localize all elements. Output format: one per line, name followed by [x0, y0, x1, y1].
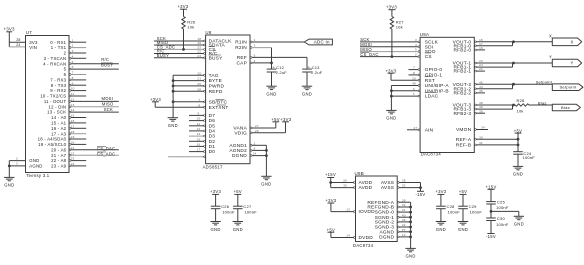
svg-text:Y: Y — [570, 61, 573, 66]
ground (C26) — [210, 222, 220, 232]
svg-text:GND: GND — [514, 222, 524, 227]
capacitor C30 100nF — [486, 211, 509, 233]
svg-text:+5V: +5V — [327, 227, 335, 232]
U9A pin RST (10) — [391, 76, 435, 84]
ground (U9B) — [405, 248, 415, 258]
svg-text:D7: D7 — [209, 113, 216, 119]
svg-text:MOSI: MOSI — [102, 96, 114, 101]
svg-text:10k: 10k — [187, 24, 194, 29]
svg-text:C26: C26 — [221, 204, 230, 209]
svg-text:AVSS: AVSS — [381, 185, 394, 191]
U9A pin RFB2-2 (45) — [453, 89, 485, 97]
U8 unnamed pin stub row — [168, 156, 205, 158]
svg-text:AVSS: AVSS — [381, 180, 394, 186]
svg-text:Teensy 3.1: Teensy 3.1 — [26, 173, 50, 178]
power +3V3 (VDIG) — [280, 117, 291, 122]
U9A pin REF-A (30) — [456, 135, 520, 143]
capacitor C26 100nF — [211, 204, 235, 222]
wire RFB1-0 to VOUT-0 — [512, 40, 515, 45]
connector tag Y — [552, 59, 581, 67]
svg-text:MISO: MISO — [102, 101, 114, 106]
svg-text:RFB2-2: RFB2-2 — [453, 91, 471, 97]
wire REF down to C13 — [306, 57, 308, 69]
IC U8 ADS8517 body — [203, 30, 250, 170]
U7 pin 23 - A9 — [51, 162, 86, 169]
U9B pin DGND (12) — [379, 233, 412, 241]
svg-text:20: 20 — [71, 141, 75, 145]
svg-text:BYTE: BYTE — [209, 78, 222, 84]
svg-text:18: 18 — [71, 130, 75, 134]
svg-text:100nF: 100nF — [448, 209, 461, 214]
svg-text:7 - RX3: 7 - RX3 — [50, 78, 66, 83]
svg-text:18 - A4/SDA0: 18 - A4/SDA0 — [38, 137, 67, 142]
wire RFB1-2 to VOUT-2 — [512, 83, 515, 89]
U8 pin BYTE (21) — [172, 77, 222, 85]
svg-text:2.2uF: 2.2uF — [276, 70, 288, 75]
ground (C13) — [302, 86, 312, 96]
U8 pin AGND2 (6) — [229, 147, 267, 155]
svg-text:13: 13 — [346, 208, 350, 212]
wire RFB1-1 to VOUT-1 — [512, 62, 515, 68]
net label Bias — [538, 100, 547, 105]
svg-text:GPIO-0: GPIO-0 — [425, 67, 443, 73]
svg-text:U9A: U9A — [420, 32, 429, 37]
net label BUSY (U8) — [157, 53, 169, 58]
U9A pin VOUT-2 (46) — [453, 80, 553, 88]
svg-text:VMON: VMON — [456, 127, 472, 133]
svg-text:CS_DAC: CS_DAC — [360, 52, 378, 57]
svg-text:VIN: VIN — [29, 45, 37, 50]
U9A RST and LDAC overbars — [425, 77, 436, 93]
net label SCK (U7) — [104, 107, 113, 112]
svg-text:TAG: TAG — [209, 73, 219, 79]
U7 pin 3V3 — [29, 40, 38, 45]
power +5V (C27) — [234, 189, 242, 206]
svg-text:14 - A0: 14 - A0 — [51, 115, 67, 120]
net label MOSI (U7) — [102, 96, 114, 101]
svg-text:100nF: 100nF — [222, 209, 235, 214]
svg-text:11: 11 — [71, 92, 75, 96]
net label MISO (U7) — [102, 101, 114, 106]
U9A pin REF-B (31) — [456, 141, 520, 149]
svg-text:35: 35 — [343, 184, 347, 188]
svg-text:C27: C27 — [243, 204, 252, 209]
svg-text:GND: GND — [29, 158, 39, 163]
svg-text:GND: GND — [266, 92, 276, 97]
svg-text:16 - A2: 16 - A2 — [51, 126, 67, 131]
U7 pin 16 - A2 — [51, 124, 86, 130]
U7 pin 15 - A1 — [51, 119, 86, 126]
power +5V (DVDD) — [327, 227, 335, 237]
U8 pin D3 (13) — [189, 132, 215, 140]
net label CS_DAC (U9A) — [360, 52, 378, 57]
svg-text:GND: GND — [168, 123, 178, 128]
net label MISO (U8) — [157, 40, 169, 45]
svg-text:7: 7 — [72, 71, 74, 75]
U7 pin 13 - SCK — [47, 108, 119, 115]
svg-text:17 - A3: 17 - A3 — [51, 131, 67, 136]
svg-text:26: 26 — [255, 129, 259, 133]
power +3V3 (R26 pullup) — [177, 4, 188, 17]
svg-text:D3: D3 — [209, 134, 216, 140]
U9B pin DVDD (14) — [331, 234, 373, 242]
wire to U7 VIN pin — [9, 46, 25, 48]
svg-text:BUSY: BUSY — [157, 53, 169, 58]
IC U9A DAC8734 body — [420, 32, 475, 157]
svg-text:LDAC: LDAC — [425, 94, 439, 100]
U7 pin 18 - A4/SDA0 — [38, 135, 87, 142]
U9A pin GPIO-0 (7) — [409, 66, 443, 74]
resistor R26 10k — [182, 17, 196, 30]
svg-text:19: 19 — [71, 135, 75, 139]
svg-text:11: 11 — [197, 122, 201, 126]
svg-text:RFB2-0: RFB2-0 — [453, 48, 471, 54]
svg-text:41: 41 — [402, 208, 406, 212]
svg-text:ADC In: ADC In — [314, 40, 330, 45]
net label BUSY (U7) — [101, 63, 113, 68]
capacitor C13 2.2uF — [302, 65, 323, 87]
wire R27 to CS_DAC net — [391, 29, 394, 58]
svg-text:28: 28 — [16, 38, 20, 42]
svg-text:+: + — [308, 65, 311, 70]
net label CS_ADC (U8) — [157, 45, 175, 50]
svg-text:AGND: AGND — [379, 229, 394, 235]
svg-text:C28: C28 — [447, 204, 456, 209]
U9B pin AVDD (35) — [331, 184, 373, 192]
svg-text:UNI/BIP-A: UNI/BIP-A — [425, 83, 450, 89]
svg-text:13: 13 — [71, 103, 75, 107]
U8 pin DGND (14) — [232, 152, 268, 160]
svg-text:+3V3: +3V3 — [325, 198, 336, 203]
resistor R28 10k — [515, 98, 529, 113]
svg-text:BUSY: BUSY — [101, 63, 113, 68]
IC U7 Teensy 3.1 body — [26, 30, 70, 178]
wire R2IN down to C12 node — [271, 48, 273, 63]
svg-text:R28: R28 — [517, 98, 526, 103]
U9A pin CS (2) — [360, 53, 432, 61]
svg-text:RST: RST — [425, 78, 435, 84]
svg-text:-15V: -15V — [486, 234, 496, 239]
svg-text:22: 22 — [71, 151, 75, 155]
svg-text:3: 3 — [72, 49, 74, 53]
svg-text:47: 47 — [414, 126, 418, 130]
wire RFB1-3 to VOUT-3 — [512, 104, 515, 110]
U8 pin PWRD (25) — [172, 82, 225, 90]
svg-text:+3V3: +3V3 — [4, 27, 15, 32]
svg-text:2.2uF: 2.2uF — [311, 70, 323, 75]
connector tag Bias — [552, 104, 580, 111]
U9A pin SDO (5) — [360, 48, 436, 56]
svg-text:U9B: U9B — [355, 171, 364, 176]
svg-text:100nF: 100nF — [470, 209, 483, 214]
svg-text:12: 12 — [71, 98, 75, 102]
U9A pin VMON (34) — [456, 126, 488, 134]
svg-text:13: 13 — [197, 132, 201, 136]
wire mid node to ground — [491, 211, 519, 216]
U9B pin AVDD (26) — [329, 179, 372, 187]
svg-text:3: 3 — [16, 162, 18, 166]
U8 pin D1 (16) — [189, 143, 215, 151]
power +15V (AVDD) — [325, 172, 336, 187]
wire R26 to CS_ADC net — [182, 29, 185, 51]
U8 pin VANA (27) — [233, 122, 275, 132]
svg-text:24: 24 — [16, 43, 20, 47]
U7 pin 21 - A7 — [51, 151, 119, 158]
svg-text:23 - A9: 23 - A9 — [51, 164, 67, 169]
resistor R27 10k — [390, 17, 404, 30]
net label X — [549, 34, 552, 39]
U8 pin VDIG (26) — [234, 122, 285, 137]
svg-text:DGND: DGND — [232, 153, 247, 159]
svg-text:+3V3: +3V3 — [177, 4, 188, 9]
svg-text:UNI/BIP-B: UNI/BIP-B — [425, 88, 449, 94]
svg-text:GND: GND — [386, 116, 396, 121]
svg-text:PWRD: PWRD — [209, 84, 225, 90]
svg-text:ADS8517: ADS8517 — [203, 164, 223, 169]
wire U7 GND tie — [8, 161, 11, 178]
svg-text:R2IN: R2IN — [235, 45, 247, 51]
svg-text:+3V3: +3V3 — [386, 5, 397, 10]
svg-text:EXT/INT: EXT/INT — [209, 105, 229, 111]
svg-text:Setpoint: Setpoint — [559, 85, 577, 90]
U8 pin D4 (12) — [189, 127, 215, 135]
svg-text:19 - A5/SCL0: 19 - A5/SCL0 — [38, 142, 67, 147]
U8 pin BUSY (24) — [154, 54, 223, 62]
U9B pin AVSS (33) — [381, 184, 422, 192]
svg-text:+15V: +15V — [325, 172, 336, 177]
svg-text:2: 2 — [72, 44, 74, 48]
U7 pin 8 - TX3 — [51, 81, 86, 88]
net label SCK (U8) — [157, 36, 166, 41]
svg-text:VDIG: VDIG — [234, 130, 247, 136]
U8 pin EXT/INT (8) — [155, 103, 228, 111]
U8 pin R2IN (3) — [235, 44, 271, 52]
U9A pin SCLK (3) — [360, 38, 439, 46]
svg-text:+3V3: +3V3 — [385, 68, 396, 73]
svg-text:GND: GND — [436, 227, 446, 232]
svg-text:D5: D5 — [209, 123, 216, 129]
svg-text:SGND-0: SGND-0 — [375, 210, 395, 216]
svg-text:17: 17 — [71, 124, 75, 128]
U9A pin RFB1-0 (17) — [453, 42, 512, 50]
capacitor C29 100nF — [458, 204, 482, 222]
svg-text:8: 8 — [72, 76, 74, 80]
U9B pin SGND-3 (42) — [375, 223, 412, 231]
svg-text:100nF: 100nF — [496, 222, 509, 227]
svg-text:-15V: -15V — [415, 192, 425, 197]
svg-text:4 - RXCAN: 4 - RXCAN — [43, 61, 66, 66]
svg-text:+: + — [272, 65, 275, 70]
net label Setpoint — [536, 80, 553, 85]
IC U9B DAC8734 body — [353, 171, 397, 248]
svg-text:6: 6 — [64, 72, 67, 77]
U9A pin AIN (47) — [407, 126, 434, 134]
U8 pin D6 (10) — [189, 117, 215, 125]
power +3V3 (IOVDD) — [325, 198, 336, 212]
svg-text:12 - DIN: 12 - DIN — [49, 104, 67, 109]
U9A pin UNI/BIP-B (6) — [390, 87, 449, 95]
capacitor C27 100nF — [233, 204, 257, 222]
U7 pin GND — [9, 156, 39, 163]
svg-text:24: 24 — [71, 162, 75, 166]
U7 pin 22 - A8 — [51, 157, 86, 164]
U8 pin D0 (17) — [189, 148, 215, 156]
U9B pin SGND-1 (40) — [375, 213, 412, 221]
svg-text:R1IN: R1IN — [235, 40, 247, 46]
svg-text:REF: REF — [237, 55, 247, 61]
svg-text:AGND2: AGND2 — [229, 148, 247, 154]
svg-text:GND: GND — [261, 182, 271, 187]
net label R/C (U8) — [157, 49, 165, 54]
U9A pin RFB2-1 (22) — [453, 67, 485, 75]
U8 pin REF (5) — [237, 54, 307, 62]
svg-text:C29: C29 — [469, 204, 478, 209]
svg-text:DGND: DGND — [379, 235, 394, 241]
power +3V3 (EXT/INT) — [150, 97, 161, 107]
svg-text:21: 21 — [71, 146, 75, 150]
svg-text:DAC8734: DAC8734 — [421, 152, 442, 157]
U9A pin RFB1-1 (24) — [453, 63, 512, 71]
ground (U8 AGND/DGND) — [261, 176, 271, 186]
ground (C24) — [513, 166, 523, 176]
ground (U8 TAG group) — [168, 118, 178, 128]
ground (C25/C30) — [514, 216, 524, 226]
U7 pin 1 - TX1 — [51, 44, 86, 51]
svg-text:15: 15 — [71, 114, 75, 118]
U7 pin number 28 — [16, 38, 20, 42]
svg-text:REFGND-B: REFGND-B — [367, 205, 394, 211]
U7 pin 19 - A5/SCL0 — [38, 141, 86, 148]
svg-text:9 - RX2: 9 - RX2 — [50, 88, 66, 93]
svg-text:+5V: +5V — [514, 128, 522, 133]
power -15V (AVSS) — [415, 183, 425, 198]
svg-text:GND: GND — [302, 92, 312, 97]
U9B pin AGND (27) — [379, 228, 412, 236]
svg-text:14: 14 — [71, 108, 75, 112]
svg-text:14: 14 — [253, 152, 257, 156]
power -15V (C30) — [486, 234, 496, 240]
svg-text:CS_ADC: CS_ADC — [97, 152, 115, 157]
U9B pin IOVDD (13) — [331, 208, 375, 216]
svg-text:2: 2 — [254, 141, 256, 145]
svg-text:2: 2 — [16, 156, 18, 160]
power +5V (C29) — [459, 189, 467, 206]
U7 pin VIN — [29, 45, 37, 50]
net label SCK (U9A) — [360, 37, 369, 42]
U9B pin REFGND-B (32) — [367, 203, 412, 211]
svg-text:+3V3: +3V3 — [280, 117, 291, 122]
power +3V3 (U7 supply) — [4, 27, 15, 47]
U9A pin RFB2-0 (16) — [453, 46, 485, 54]
svg-text:8 - TX3: 8 - TX3 — [51, 83, 67, 88]
U9B pin REFGND-A (29) — [367, 198, 410, 206]
U7 pin AGND — [9, 162, 42, 169]
U7 pin 6 — [64, 71, 87, 78]
svg-text:Bias: Bias — [561, 105, 570, 110]
wire +3V3 to U7 3V3 pin — [9, 41, 25, 43]
svg-text:AVDD: AVDD — [359, 185, 373, 191]
svg-text:REFD: REFD — [209, 89, 223, 95]
svg-text:33: 33 — [402, 184, 406, 188]
U7 pin 12 - DIN — [49, 103, 119, 110]
svg-text:AIN: AIN — [425, 127, 434, 133]
capacitor C12 2.2uF — [267, 63, 288, 86]
svg-text:GND: GND — [210, 227, 220, 232]
svg-text:DAC8734: DAC8734 — [353, 243, 374, 248]
ground (C27) — [233, 222, 243, 232]
svg-text:21 - A7: 21 - A7 — [51, 153, 67, 158]
svg-text:17: 17 — [197, 148, 201, 152]
svg-text:+3V3: +3V3 — [435, 189, 446, 194]
svg-text:SB/BTC: SB/BTC — [209, 99, 228, 105]
svg-text:AVDD: AVDD — [359, 180, 373, 186]
svg-text:Setpoint: Setpoint — [536, 80, 553, 85]
U9A pin VOUT-1 (23) — [453, 59, 553, 67]
ground (U9A LDAC group) — [386, 110, 396, 120]
svg-text:D0: D0 — [209, 149, 216, 155]
U9A pin VOUT-0 (15) — [453, 38, 553, 46]
svg-text:10: 10 — [71, 87, 75, 91]
net label R/C (U7) — [101, 57, 109, 62]
U9A pin RFB1-3 (40) — [453, 105, 512, 113]
svg-text:RFB2-1: RFB2-1 — [453, 69, 471, 75]
U7 pin 10 - TX2/CS — [40, 92, 86, 99]
U7 pin 5 — [64, 65, 119, 72]
wire U9B ground tie — [410, 202, 412, 248]
svg-text:RFB2-3: RFB2-3 — [453, 111, 471, 117]
U8 pin R/C (22) — [154, 50, 218, 58]
svg-text:GND: GND — [4, 183, 14, 188]
U7 pin 7 - RX3 — [50, 76, 86, 83]
U9A pin SDI (4) — [360, 43, 433, 51]
svg-text:SGND-2: SGND-2 — [375, 220, 395, 226]
svg-text:0 - RX1: 0 - RX1 — [50, 40, 66, 45]
U8 pin SB/BTC (7) — [172, 98, 228, 106]
U8 pin R1IN (1) — [235, 38, 304, 46]
svg-text:U8: U8 — [205, 30, 211, 35]
svg-text:+5V: +5V — [234, 189, 242, 194]
svg-text:CS_DAC: CS_DAC — [97, 146, 115, 151]
svg-text:CAP: CAP — [236, 61, 247, 67]
svg-text:Y: Y — [549, 54, 552, 59]
svg-text:GPIO-1: GPIO-1 — [425, 73, 443, 79]
U9A pin VOUT-3 (38) — [453, 101, 516, 109]
U8 pin CAP (4) — [236, 59, 271, 67]
svg-text:AGND: AGND — [29, 164, 42, 169]
U7 pin 20 - A6 — [51, 146, 119, 153]
svg-text:Bias: Bias — [538, 100, 547, 105]
svg-text:2: 2 — [64, 51, 67, 56]
U7 pin 4 - RXCAN — [43, 60, 119, 67]
net label MISO (U9A) — [360, 47, 372, 52]
connector tag X — [552, 38, 581, 46]
svg-text:13 - SCK: 13 - SCK — [47, 110, 66, 115]
svg-text:+3V3: +3V3 — [210, 189, 221, 194]
svg-text:X: X — [570, 39, 573, 44]
U9A pin LDAC (1) — [390, 92, 439, 100]
node C25/C30 midpoint — [490, 210, 493, 213]
svg-text:REF-A: REF-A — [456, 137, 472, 143]
U9A CS overbar — [425, 52, 431, 54]
U9A pin UNI/BIP-A (48) — [391, 82, 449, 90]
power +3V3 (RST) — [385, 68, 396, 80]
U7 pin 2 — [64, 49, 87, 56]
net label Y — [549, 54, 552, 59]
svg-text:REF-B: REF-B — [456, 143, 472, 149]
U7 pin 14 - A0 — [51, 114, 86, 121]
svg-text:9: 9 — [72, 81, 74, 85]
wire R28 to Bias tag — [529, 104, 553, 106]
